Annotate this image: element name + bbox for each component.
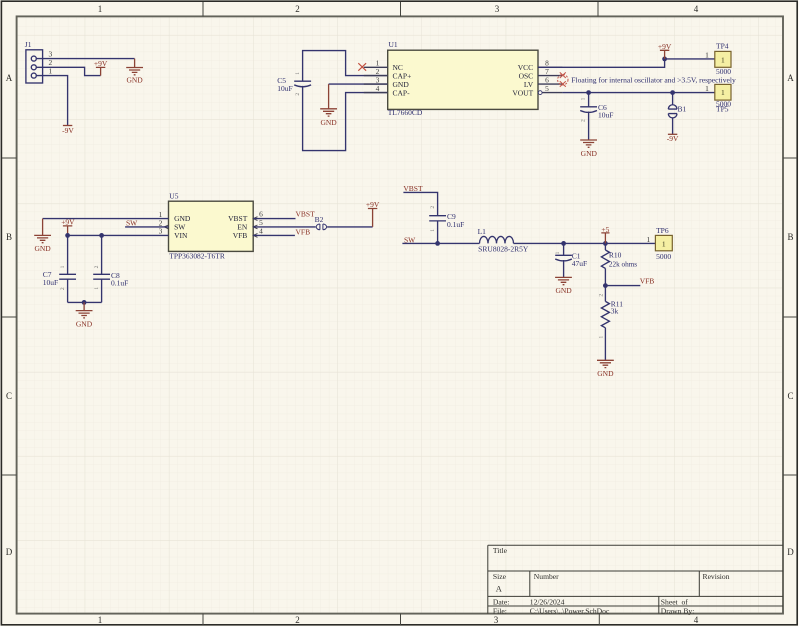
junction (VFB node) [603, 283, 608, 288]
connector J1 [25, 40, 53, 83]
wire C6 to GND [588, 112, 590, 141]
no-ERC marker X on U1 pin6 [560, 81, 566, 87]
ground GND (J1) [126, 59, 143, 75]
svg-text:Sheet of: Sheet of [661, 597, 688, 606]
power +9V (B2) [368, 209, 377, 227]
wire U5 pin5 EN to B2 [253, 226, 316, 228]
svg-text:Drawn By:: Drawn By: [661, 606, 695, 615]
svg-text:GND: GND [555, 286, 572, 295]
svg-text:A: A [496, 585, 502, 594]
svg-text:2: 2 [94, 265, 100, 268]
power +9V (J1) [96, 67, 105, 75]
svg-text:5000: 5000 [716, 67, 731, 76]
no-ERC marker X on U1 pin1 [358, 63, 366, 70]
wire R11 to GND [604, 328, 606, 361]
junction (C7 tap) [65, 233, 70, 238]
U5 pin names [174, 214, 191, 240]
svg-text:Floating for internal oscillat: Floating for internal oscillator and >3.… [571, 76, 736, 85]
svg-text:2: 2 [581, 119, 587, 122]
svg-text:SW: SW [126, 218, 138, 227]
svg-text:-9V: -9V [667, 134, 679, 143]
svg-text:4: 4 [694, 615, 699, 625]
ground GND (U1 pin3) [320, 84, 337, 116]
svg-text:VFB: VFB [296, 228, 311, 237]
svg-text:TL7660CD: TL7660CD [388, 108, 423, 117]
svg-text:2: 2 [599, 294, 605, 297]
wire J1 pin2 jog [36, 67, 100, 75]
U1 left pins [364, 67, 388, 92]
capacitor C6 [580, 97, 613, 122]
wire U5 pin6 VBST stub [253, 218, 295, 220]
svg-text:File:: File: [493, 606, 507, 615]
svg-text:3: 3 [494, 615, 499, 625]
svg-text:10uF: 10uF [277, 84, 292, 93]
test point TP5 [705, 84, 731, 114]
wire VFB node to R11 [604, 286, 606, 302]
wire VOUT down to B1 [672, 93, 674, 105]
wire +5 node to R10 [604, 243, 606, 250]
svg-text:1: 1 [599, 336, 605, 339]
svg-text:GND: GND [581, 149, 598, 158]
wire B1 to -9V [672, 118, 674, 134]
svg-text:47uF: 47uF [572, 259, 587, 268]
svg-text:B: B [6, 232, 12, 242]
svg-text:4: 4 [259, 226, 263, 235]
capacitor C7 [43, 265, 76, 290]
ground GND (R11) [597, 360, 614, 367]
svg-text:B2: B2 [315, 215, 324, 224]
junction (R10 tap) [603, 241, 608, 246]
U5 left pin numbers [159, 210, 163, 236]
test point TP4 [705, 41, 731, 76]
U1 pin5 inversion bubble [538, 91, 542, 95]
svg-text:+9V: +9V [94, 59, 108, 68]
svg-text:1: 1 [581, 97, 587, 100]
svg-text:+9V: +9V [366, 200, 380, 209]
wire U5 pin2 SW stub [125, 226, 168, 228]
svg-text:5000: 5000 [656, 252, 671, 261]
U1 pin names [393, 63, 412, 97]
svg-text:SRU8028-2R5Y: SRU8028-2R5Y [478, 246, 529, 254]
svg-text:CAP-: CAP- [393, 88, 411, 97]
wire C8 branch [101, 235, 103, 302]
svg-text:Revision: Revision [703, 572, 730, 581]
test point TP6 [646, 226, 672, 261]
svg-text:B: B [787, 232, 793, 242]
svg-text:GND: GND [320, 118, 337, 127]
ground GND (C6) [580, 140, 597, 147]
svg-text:Date:: Date: [493, 597, 509, 606]
wire C5 bottom loop [303, 86, 388, 151]
wire U1 VCC to +9V / TP4 [538, 59, 715, 67]
svg-text:J1: J1 [25, 40, 32, 49]
svg-text:GND: GND [76, 319, 93, 328]
svg-text:5: 5 [545, 84, 549, 93]
svg-text:VBST: VBST [296, 210, 316, 219]
svg-text:2: 2 [60, 287, 66, 290]
power +9V (U1) [660, 50, 669, 59]
regulator U5 TPP363082-T6TR [169, 191, 254, 260]
svg-text:1: 1 [98, 615, 103, 625]
svg-text:L1: L1 [478, 227, 487, 236]
svg-text:U1: U1 [389, 40, 398, 49]
svg-text:+9V: +9V [61, 218, 75, 227]
capacitor C1 [555, 251, 587, 268]
svg-text:1: 1 [60, 265, 66, 268]
title block [488, 545, 783, 613]
svg-text:1: 1 [430, 229, 436, 232]
svg-text:-9V: -9V [62, 126, 74, 135]
inductor L1 [478, 227, 530, 254]
svg-text:3: 3 [495, 4, 500, 14]
svg-text:3k: 3k [611, 307, 619, 316]
svg-text:Size: Size [493, 572, 507, 581]
junction (VCC node) [662, 57, 667, 62]
junction (C9 tap) [435, 241, 440, 246]
dashed red circle marker [558, 75, 568, 85]
wire R10 to VFB node [604, 268, 606, 285]
wire J1 pin1 down [36, 76, 67, 126]
U5 pin arrows [164, 217, 257, 238]
svg-text:10uF: 10uF [598, 111, 613, 120]
wire U5 pin1 GND to ground [43, 218, 169, 220]
zone separator ticks bottom [203, 614, 599, 625]
bridge B2 [316, 224, 326, 230]
power +5 label [601, 233, 609, 244]
ground GND (C7 C8) [76, 302, 93, 318]
svg-text:+9V: +9V [658, 42, 672, 51]
svg-text:1: 1 [555, 251, 561, 254]
op-amp U1 TL7660CD [388, 40, 538, 117]
svg-text:VFB: VFB [640, 277, 655, 286]
capacitor C8 [93, 265, 128, 289]
wire J1 pin3 to GND [36, 58, 134, 60]
wire C9 to SW row [437, 221, 439, 244]
svg-text:+5: +5 [601, 225, 609, 234]
svg-text:1: 1 [662, 239, 666, 248]
wire B2 to +9V [327, 226, 373, 228]
svg-text:VOUT: VOUT [512, 88, 533, 97]
ground GND (U5) [34, 219, 51, 243]
svg-text:22k ohms: 22k ohms [609, 260, 637, 268]
wire C7 branch [67, 235, 69, 302]
wire VFB stub [605, 285, 640, 287]
wire SW row to L1 [402, 242, 479, 244]
wire C5 top loop [303, 51, 388, 82]
svg-text:GND: GND [34, 244, 51, 253]
capacitor C9 [429, 206, 464, 232]
svg-text:TP6: TP6 [656, 226, 669, 235]
svg-text:1: 1 [646, 235, 650, 244]
svg-text:4: 4 [694, 4, 699, 14]
svg-text:1: 1 [705, 50, 709, 59]
svg-text:VIN: VIN [174, 231, 188, 240]
svg-text:VFB: VFB [233, 231, 248, 240]
svg-text:R10: R10 [609, 251, 622, 260]
bridge B1 [668, 105, 677, 118]
junction (gnd rail) [82, 300, 87, 305]
svg-text:TP4: TP4 [716, 41, 729, 50]
svg-text:A: A [787, 73, 794, 83]
svg-text:1: 1 [98, 4, 103, 14]
resistor R11 [601, 300, 623, 328]
wire VOUT down to C6 [588, 93, 590, 107]
svg-text:C: C [6, 391, 12, 401]
svg-text:1: 1 [94, 287, 100, 290]
power -9V (B1) [668, 133, 677, 135]
power -9V (J1) [63, 125, 72, 127]
U5 right pin numbers [259, 210, 263, 236]
svg-text:10uF: 10uF [43, 278, 58, 287]
svg-text:C: C [787, 391, 793, 401]
capacitor C5 [277, 72, 311, 96]
junction (C8 tap) [99, 233, 104, 238]
resistor R10 [601, 250, 637, 268]
svg-text:Title: Title [493, 546, 508, 555]
wire bottom rail C7-C8 [68, 301, 102, 303]
wire VBST to C9 [403, 192, 437, 215]
no-ERC marker X on U1 pin7 [560, 72, 566, 78]
svg-text:1: 1 [721, 88, 725, 97]
svg-text:GND: GND [126, 76, 143, 85]
svg-text:3: 3 [159, 227, 163, 236]
wire U1 VOUT to TP5 [562, 92, 714, 94]
svg-text:D: D [787, 547, 794, 557]
svg-text:12/26/2024: 12/26/2024 [530, 597, 565, 606]
svg-text:B1: B1 [678, 104, 687, 113]
svg-text:GND: GND [597, 369, 614, 378]
zone separator ticks right [783, 158, 797, 475]
svg-text:C:\Users\..\Power.SchDoc: C:\Users\..\Power.SchDoc [530, 606, 610, 615]
wire U5 pin4 VFB stub [253, 234, 295, 236]
power +9V (U5 VIN) [63, 226, 72, 236]
svg-text:2: 2 [430, 206, 436, 209]
wire L1 to TP6 [514, 242, 656, 244]
junction (C1 tap) [561, 241, 566, 246]
zone separator ticks top [203, 2, 598, 16]
svg-text:Number: Number [534, 572, 559, 581]
wire C1 branch [563, 243, 565, 255]
zone separator ticks left [2, 158, 17, 475]
svg-text:D: D [6, 547, 13, 557]
svg-text:0.1uF: 0.1uF [447, 220, 464, 229]
svg-text:1: 1 [705, 84, 709, 93]
svg-text:4: 4 [376, 84, 380, 93]
svg-text:1: 1 [295, 72, 301, 75]
svg-text:1: 1 [721, 55, 725, 64]
wire C1 to GND [563, 260, 565, 277]
svg-text:A: A [6, 73, 13, 83]
svg-text:2: 2 [295, 4, 300, 14]
svg-text:VBST: VBST [403, 184, 423, 193]
svg-text:0.1uF: 0.1uF [111, 278, 128, 287]
svg-text:2: 2 [295, 93, 301, 96]
wire U1 pin3 to GND [329, 83, 388, 85]
U1 right pins [538, 67, 562, 92]
junction (B1 tap) [670, 90, 675, 95]
svg-text:TP5: TP5 [716, 105, 729, 114]
svg-text:U5: U5 [169, 191, 178, 200]
junction (C6 tap) [586, 90, 591, 95]
svg-text:2: 2 [295, 615, 300, 625]
ground GND (C1) [555, 277, 572, 284]
wire U5 pin3 VIN [68, 234, 169, 236]
svg-text:TPP363082-T6TR: TPP363082-T6TR [169, 252, 225, 260]
